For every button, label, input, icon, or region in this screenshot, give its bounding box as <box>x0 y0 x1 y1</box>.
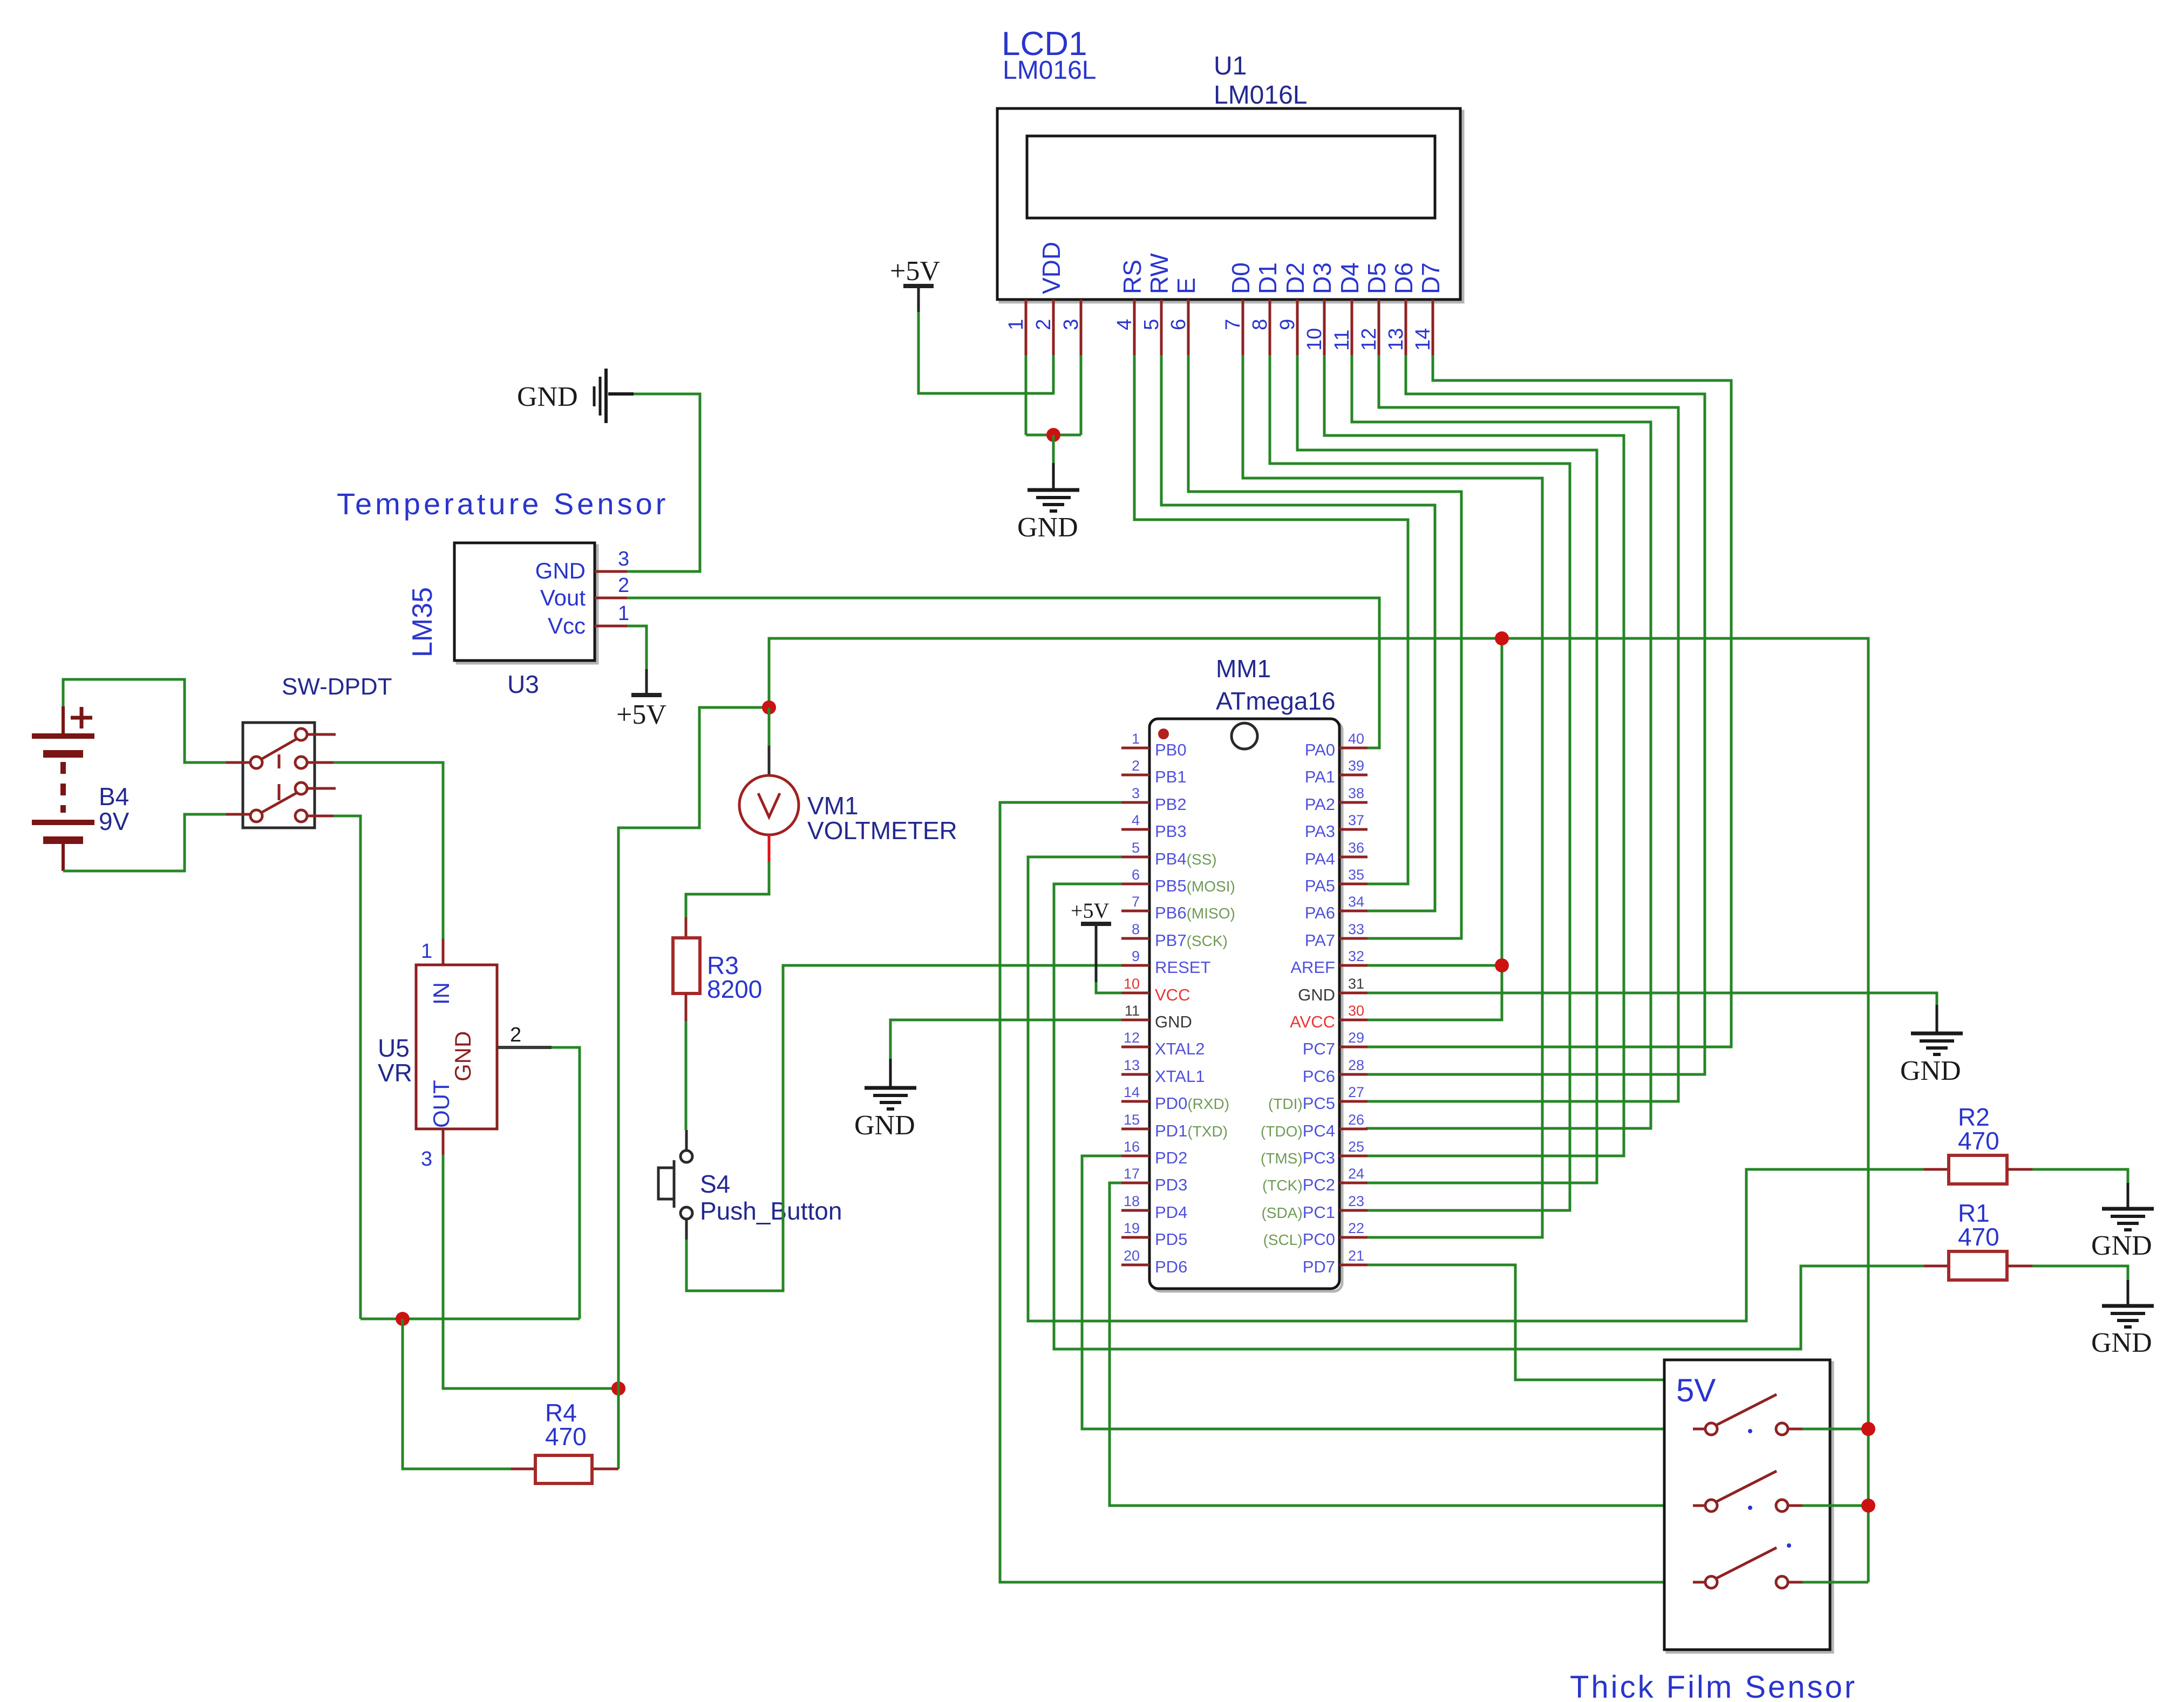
svg-text:5: 5 <box>1140 319 1163 330</box>
svg-text:12: 12 <box>1124 1030 1140 1046</box>
wire R2 to ground <box>2032 1169 2128 1183</box>
svg-text:(TDO)PC4: (TDO)PC4 <box>1261 1121 1335 1140</box>
ground symbol left of ATmega <box>865 1059 916 1109</box>
R3 bottom stub <box>685 993 688 1021</box>
ATmega pin 3 PB2 stub <box>1121 801 1149 804</box>
svg-text:5V: 5V <box>1676 1372 1716 1408</box>
svg-text:PB2: PB2 <box>1155 795 1187 814</box>
svg-text:24: 24 <box>1348 1166 1364 1182</box>
svg-text:PA5: PA5 <box>1305 876 1335 895</box>
ATmega pin 15 PD1 stub <box>1121 1128 1149 1131</box>
junction dot AREF tap <box>1495 958 1509 972</box>
ATmega pin 1 PB0 stub <box>1121 747 1149 750</box>
svg-text:PA6: PA6 <box>1305 903 1335 922</box>
svg-text:XTAL2: XTAL2 <box>1155 1039 1205 1058</box>
svg-text:10: 10 <box>1303 328 1326 351</box>
sensor switch 3 right stub <box>1788 1581 1802 1584</box>
+5V bar <box>903 284 934 288</box>
ATmega pin 28 PC6 stub <box>1339 1073 1367 1076</box>
svg-text:27: 27 <box>1348 1084 1364 1100</box>
wire LM35 GND to flag <box>605 394 700 571</box>
+5V VCC stem <box>1095 924 1098 982</box>
push button S4 top circle <box>681 1150 692 1162</box>
S4 top lead <box>685 1130 688 1150</box>
svg-text:7: 7 <box>1132 894 1140 910</box>
ATmega pin 5 PB4 stub <box>1121 856 1149 859</box>
ATmega pin 16 PD2 stub <box>1121 1155 1149 1158</box>
switch pole B circle <box>250 810 262 822</box>
svg-text:35: 35 <box>1348 867 1364 883</box>
R1 right stub <box>2007 1265 2032 1268</box>
svg-text:D2: D2 <box>1281 262 1309 294</box>
svg-text:PD7: PD7 <box>1303 1257 1335 1276</box>
svg-text:22: 22 <box>1348 1220 1364 1236</box>
wire pole B throw down <box>334 816 360 1319</box>
wire D1 pin8 to PC1 <box>1270 355 1570 1210</box>
svg-text:PB7(SCK): PB7(SCK) <box>1155 931 1228 950</box>
wire Vout to PA0 <box>627 598 1379 748</box>
svg-text:(TMS)PC3: (TMS)PC3 <box>1261 1148 1335 1167</box>
resistor R1 body <box>1949 1251 2007 1280</box>
svg-text:20: 20 <box>1124 1248 1140 1264</box>
svg-text:2: 2 <box>1132 758 1140 774</box>
wire AREF pin32 to +5V rail <box>1367 964 1502 967</box>
ATmega U MM1 body <box>1149 719 1339 1289</box>
junction dot switch2 <box>1861 1499 1875 1513</box>
ATmega pin 10 VCC stub <box>1121 992 1149 995</box>
wire S4 to RESET <box>686 965 1121 1291</box>
ATmega pin 24 PC2 stub <box>1339 1182 1367 1184</box>
wire junction down to R4 left <box>403 1319 511 1469</box>
LCD pin 1 stub <box>1025 299 1028 355</box>
wire PB4 pin5 to R2 <box>1028 857 1924 1321</box>
ATmega pin 22 PC0 stub <box>1339 1236 1367 1239</box>
wire battery- to switch pole B <box>63 814 226 871</box>
LM35 pin3 stub <box>595 570 627 573</box>
switch throw B2 circle <box>295 810 307 822</box>
svg-text:1: 1 <box>618 602 629 625</box>
svg-text:3: 3 <box>618 548 629 570</box>
wire junction to ground <box>1052 435 1055 463</box>
sensor switch 1 dot <box>1748 1429 1752 1433</box>
svg-text:3: 3 <box>1132 785 1140 801</box>
svg-text:U1: U1 <box>1214 52 1247 80</box>
svg-text:+5V: +5V <box>890 256 940 287</box>
VM1 bottom lead red <box>768 835 771 862</box>
svg-text:LM016L: LM016L <box>1214 81 1307 110</box>
svg-text:6: 6 <box>1132 867 1140 883</box>
wire pin1-pin3 join <box>1026 434 1081 437</box>
U5 pin1 stub top <box>442 939 445 965</box>
svg-text:(SCL)PC0: (SCL)PC0 <box>1263 1230 1335 1249</box>
svg-text:14: 14 <box>1124 1084 1140 1100</box>
ATmega pin 11 GND stub <box>1121 1019 1149 1022</box>
+5V stem <box>917 286 920 312</box>
voltmeter VM1 circle <box>739 775 799 835</box>
ground symbol right of ATmega <box>1911 1005 1963 1054</box>
svg-text:15: 15 <box>1124 1112 1140 1128</box>
wire RW pin5 to PA6 <box>1161 355 1435 911</box>
svg-text:37: 37 <box>1348 812 1364 828</box>
wire VM1 to R3 <box>686 862 769 938</box>
ATmega pin 29 PC7 stub <box>1339 1046 1367 1049</box>
LCD1 body <box>997 108 1460 299</box>
svg-text:PD5: PD5 <box>1155 1230 1187 1249</box>
svg-text:36: 36 <box>1348 840 1364 856</box>
LCD1 screen window <box>1027 136 1435 218</box>
svg-text:9: 9 <box>1132 948 1140 964</box>
Thick Film Sensor body shadow <box>1667 1363 1833 1652</box>
svg-text:PA1: PA1 <box>1305 767 1335 786</box>
LCD pin 13 stub <box>1405 299 1407 355</box>
wire PD2 pin16 to sensor row1 <box>1082 1156 1693 1429</box>
switch pole A stub <box>226 761 250 764</box>
svg-text:GND: GND <box>1900 1056 1961 1086</box>
svg-text:470: 470 <box>1958 1223 1999 1251</box>
switch throw B1 circle <box>295 782 307 794</box>
sensor switch 1 left stub <box>1693 1428 1705 1431</box>
LCD pin 7 stub <box>1242 299 1244 355</box>
wire D3 pin10 to PC3 <box>1324 355 1624 1156</box>
LM35 pin2 stub <box>595 597 627 600</box>
svg-text:19: 19 <box>1124 1220 1140 1236</box>
ATmega pin 39 PA1 stub <box>1339 774 1367 777</box>
svg-text:29: 29 <box>1348 1030 1364 1046</box>
svg-text:(TCK)PC2: (TCK)PC2 <box>1262 1175 1335 1194</box>
svg-text:Temperature Sensor: Temperature Sensor <box>337 487 669 521</box>
ATmega pin 7 PB6 stub <box>1121 910 1149 913</box>
R3 top stub <box>685 917 688 938</box>
svg-text:23: 23 <box>1348 1193 1364 1209</box>
U5 pin2 lead <box>497 1046 552 1049</box>
svg-text:4: 4 <box>1132 812 1140 828</box>
svg-text:39: 39 <box>1348 758 1364 774</box>
sensor switch 2 dot <box>1748 1506 1752 1510</box>
battery plate short top <box>43 750 83 758</box>
svg-text:PB6(MISO): PB6(MISO) <box>1155 903 1235 922</box>
battery plate long top <box>32 733 94 739</box>
svg-text:VR: VR <box>378 1059 412 1087</box>
resistor R4 body <box>535 1455 592 1483</box>
wire PD7 pin21 to sensor 5V <box>1367 1265 1664 1380</box>
svg-text:U5: U5 <box>378 1034 410 1062</box>
svg-text:OUT: OUT <box>428 1080 454 1128</box>
GND flag near LM35 <box>594 369 634 423</box>
wire U5 GND down <box>552 1047 580 1319</box>
battery plate short bottom <box>43 836 83 844</box>
svg-text:GND: GND <box>1298 985 1335 1004</box>
battery plus sign <box>71 707 92 729</box>
battery dashed link <box>60 762 66 813</box>
svg-text:13: 13 <box>1385 328 1407 351</box>
R4 left stub <box>511 1468 535 1470</box>
wire switch1 to rail <box>1802 1428 1868 1431</box>
ATmega pin 40 PA0 stub <box>1339 747 1367 750</box>
sensor switch 2 right circle <box>1776 1500 1788 1512</box>
switch link dashes <box>278 754 281 800</box>
R2 right stub <box>2007 1168 2032 1171</box>
svg-text:PB4(SS): PB4(SS) <box>1155 849 1217 868</box>
ATmega pin 38 PA2 stub <box>1339 801 1367 804</box>
LCD pin 4 stub <box>1133 299 1136 355</box>
svg-text:B4: B4 <box>99 782 129 811</box>
LCD pin 12 stub <box>1378 299 1380 355</box>
switch arm B <box>261 792 298 813</box>
svg-text:+5V: +5V <box>616 699 666 730</box>
svg-text:7: 7 <box>1222 319 1244 330</box>
svg-text:Push_Button: Push_Button <box>700 1197 842 1225</box>
wire U5 OUT down to node <box>443 1155 618 1388</box>
switch arm A <box>261 738 298 759</box>
sensor switch 1 arm <box>1716 1394 1777 1425</box>
switch throw A2 stub <box>307 761 334 764</box>
ATmega pin 32 AREF stub <box>1339 964 1367 967</box>
svg-text:GND: GND <box>517 382 578 412</box>
wire pole A throw to U5 IN <box>334 763 443 939</box>
svg-text:25: 25 <box>1348 1139 1364 1155</box>
wire GND to pin11 <box>890 1020 1121 1059</box>
svg-text:GND: GND <box>2091 1327 2152 1358</box>
U5 pin3 stub bottom <box>442 1129 445 1155</box>
svg-text:4: 4 <box>1113 319 1136 330</box>
svg-text:30: 30 <box>1348 1003 1364 1019</box>
ATmega pin 4 PB3 stub <box>1121 828 1149 831</box>
ATmega pin 14 PD0 stub <box>1121 1100 1149 1103</box>
ATmega pin 36 PA4 stub <box>1339 856 1367 859</box>
S4 actuator bracket <box>658 1160 674 1208</box>
ATmega pin 23 PC1 stub <box>1339 1209 1367 1212</box>
+5V symbol under LM35 bar <box>631 693 662 697</box>
svg-text:S4: S4 <box>700 1170 730 1198</box>
svg-text:AREF: AREF <box>1290 958 1335 977</box>
svg-text:PD2: PD2 <box>1155 1148 1187 1167</box>
svg-text:GND: GND <box>450 1031 475 1081</box>
svg-text:470: 470 <box>1958 1127 1999 1155</box>
svg-text:8200: 8200 <box>707 975 762 1003</box>
junction dot switch1 <box>1861 1422 1875 1436</box>
svg-text:40: 40 <box>1348 731 1364 747</box>
svg-text:PA3: PA3 <box>1305 822 1335 841</box>
svg-text:3: 3 <box>1060 319 1083 330</box>
svg-text:GND: GND <box>1155 1012 1192 1031</box>
wire PB5 pin6 to R1 <box>1054 884 1924 1349</box>
svg-text:1: 1 <box>1005 319 1028 330</box>
battery B4 bottom lead <box>62 840 65 871</box>
ATmega pin 12 XTAL2 stub <box>1121 1046 1149 1049</box>
LCD body shadow <box>1000 111 1463 302</box>
ATmega pin 31 GND stub <box>1339 992 1367 995</box>
svg-text:AVCC: AVCC <box>1290 1012 1335 1031</box>
sensor switch 3 arm <box>1716 1548 1777 1578</box>
wire switch2 to rail <box>1802 1504 1868 1507</box>
svg-text:U3: U3 <box>507 670 539 698</box>
svg-text:PB1: PB1 <box>1155 767 1187 786</box>
wire PD3 pin17 to sensor row2 <box>1110 1183 1693 1506</box>
svg-text:33: 33 <box>1348 921 1364 937</box>
wire +5V to VDD <box>918 312 1054 393</box>
ATmega pin 27 PC5 stub <box>1339 1100 1367 1103</box>
ATmega pin 13 XTAL1 stub <box>1121 1073 1149 1076</box>
svg-text:3: 3 <box>421 1148 432 1170</box>
sensor switch 3 dot <box>1787 1543 1791 1548</box>
junction dot +5V node right <box>611 1381 625 1395</box>
svg-text:IN: IN <box>428 982 454 1005</box>
svg-text:PC6: PC6 <box>1303 1067 1335 1086</box>
ATmega pin 37 PA3 stub <box>1339 828 1367 831</box>
svg-text:PB3: PB3 <box>1155 822 1187 841</box>
ATmega pin 25 PC3 stub <box>1339 1155 1367 1158</box>
wire VM1 top lead green <box>768 707 771 746</box>
junction dot VM1 node <box>762 700 776 714</box>
sensor switch 3 left circle <box>1705 1576 1717 1588</box>
LM35 body U3 <box>454 543 595 661</box>
svg-text:2: 2 <box>1032 319 1055 330</box>
svg-text:VM1: VM1 <box>807 792 859 820</box>
svg-text:LM35: LM35 <box>407 587 438 657</box>
ATmega pin1 marker dot <box>1158 729 1169 739</box>
svg-text:D5: D5 <box>1363 262 1391 294</box>
svg-text:(SDA)PC1: (SDA)PC1 <box>1261 1203 1335 1222</box>
svg-text:D7: D7 <box>1417 262 1445 294</box>
LCD pin 9 stub <box>1296 299 1299 355</box>
switch pole B stub <box>226 813 250 816</box>
switch throw B2 stub <box>307 815 334 818</box>
svg-text:PD4: PD4 <box>1155 1203 1187 1222</box>
battery B4 top lead <box>62 706 65 736</box>
LCD pin 6 stub <box>1187 299 1190 355</box>
svg-text:D4: D4 <box>1336 262 1364 294</box>
switch throw A1 stub unconnected <box>307 733 336 736</box>
wire ground bus R4 left <box>360 1318 580 1320</box>
svg-text:8: 8 <box>1132 921 1140 937</box>
wire +5V to VCC pin10 <box>1096 982 1121 993</box>
svg-text:VOLTMETER: VOLTMETER <box>807 816 957 845</box>
sensor switch 1 right circle <box>1776 1423 1788 1435</box>
R4 right stub <box>592 1468 618 1470</box>
wire D5 pin12 to PC5 <box>1366 355 1678 1101</box>
battery plate long bottom <box>32 820 94 825</box>
ground under LCD <box>1028 463 1079 511</box>
svg-text:16: 16 <box>1124 1139 1140 1155</box>
svg-text:14: 14 <box>1412 328 1434 351</box>
ATmega pin 30 AVCC stub <box>1339 1019 1367 1022</box>
svg-text:5: 5 <box>1132 840 1140 856</box>
VM1 top lead black <box>768 746 771 777</box>
svg-text:470: 470 <box>545 1422 587 1451</box>
svg-text:RW: RW <box>1145 253 1173 294</box>
svg-text:10: 10 <box>1124 976 1140 992</box>
svg-text:11: 11 <box>1331 330 1353 351</box>
ATmega pin 33 PA7 stub <box>1339 937 1367 940</box>
LCD pin 5 stub <box>1160 299 1163 355</box>
svg-text:D0: D0 <box>1227 262 1255 294</box>
svg-text:RS: RS <box>1118 260 1146 294</box>
LM35 body shadow <box>457 546 597 663</box>
R2 left stub <box>1924 1168 1949 1171</box>
junction dot ground bus <box>396 1312 410 1326</box>
svg-text:PA0: PA0 <box>1305 740 1335 759</box>
svg-text:Thick Film Sensor: Thick Film Sensor <box>1570 1670 1857 1702</box>
sensor switch 2 arm <box>1716 1471 1777 1502</box>
svg-text:9V: 9V <box>99 807 130 835</box>
wire AVCC pin30 to +5V rail <box>1367 638 1502 1020</box>
ATmega pin 19 PD5 stub <box>1121 1236 1149 1239</box>
LM35 pin1 stub <box>595 625 627 628</box>
ATmega body shadow <box>1152 721 1342 1291</box>
sensor switch 2 left circle <box>1705 1500 1717 1512</box>
svg-text:PC7: PC7 <box>1303 1039 1335 1058</box>
svg-text:VDD: VDD <box>1037 242 1065 294</box>
wire GND pin31 right <box>1367 993 1937 1005</box>
wire D6 pin13 to PC6 <box>1366 355 1705 1074</box>
svg-text:GND: GND <box>2091 1230 2152 1261</box>
ATmega pin 18 PD4 stub <box>1121 1209 1149 1212</box>
svg-text:21: 21 <box>1348 1248 1364 1264</box>
svg-text:GND: GND <box>1017 512 1078 543</box>
wire VDD pin2 down <box>1052 355 1055 393</box>
sensor switch 2 right stub <box>1788 1504 1802 1507</box>
svg-text:(TDI)PC5: (TDI)PC5 <box>1268 1094 1335 1113</box>
LCD pin 14 stub <box>1432 299 1434 355</box>
wire R3 to S4 <box>685 1021 688 1130</box>
svg-text:Vout: Vout <box>540 585 586 610</box>
wire E pin6 to PA7 <box>1188 355 1461 938</box>
wire node down to R4 right <box>617 1388 620 1469</box>
resistor R3 body <box>673 938 700 993</box>
svg-text:6: 6 <box>1167 319 1190 330</box>
wire +5V net rail up and right <box>769 638 1868 1582</box>
ATmega pin 26 PC4 stub <box>1339 1128 1367 1131</box>
push button S4 bottom circle <box>681 1207 692 1219</box>
ATmega pin 8 PB7 stub <box>1121 937 1149 940</box>
wire PB2 pin3 to sensor row3 <box>1000 802 1693 1582</box>
wire D0 pin7 to PC0 <box>1243 355 1542 1237</box>
wire +5V net VM1 to regulator node <box>618 707 769 1388</box>
switch pole A circle <box>250 757 262 768</box>
wire battery+ to switch pole A <box>63 679 226 763</box>
S4 bottom lead <box>685 1219 688 1240</box>
svg-text:8: 8 <box>1249 319 1271 330</box>
svg-text:E: E <box>1172 277 1200 294</box>
svg-text:11: 11 <box>1125 1003 1140 1019</box>
ATmega pin 6 PB5 stub <box>1121 883 1149 886</box>
svg-text:1: 1 <box>1132 731 1140 747</box>
svg-text:31: 31 <box>1348 976 1364 992</box>
sensor switch 3 left stub <box>1693 1581 1705 1584</box>
svg-text:PA7: PA7 <box>1305 931 1335 950</box>
svg-text:2: 2 <box>510 1024 521 1046</box>
ATmega pin 20 PD6 stub <box>1121 1264 1149 1267</box>
svg-text:LM016L: LM016L <box>1003 56 1096 85</box>
svg-text:PD6: PD6 <box>1155 1257 1187 1276</box>
svg-text:PD0(RXD): PD0(RXD) <box>1155 1094 1229 1113</box>
ATmega notch circle <box>1232 723 1257 749</box>
LCD pin 2 stub <box>1052 299 1055 355</box>
ATmega pin 9 RESET stub <box>1121 964 1149 967</box>
svg-text:32: 32 <box>1348 948 1364 964</box>
svg-text:PB5(MOSI): PB5(MOSI) <box>1155 876 1235 895</box>
VM1 V mark <box>758 793 780 817</box>
svg-text:38: 38 <box>1348 785 1364 801</box>
svg-text:18: 18 <box>1124 1193 1140 1209</box>
svg-text:26: 26 <box>1348 1112 1364 1128</box>
svg-text:12: 12 <box>1358 328 1380 351</box>
sensor switch 1 left circle <box>1705 1423 1717 1435</box>
svg-text:Vcc: Vcc <box>548 613 586 638</box>
wire D2 pin9 to PC2 <box>1297 355 1597 1183</box>
wire R1 to ground <box>2032 1266 2128 1280</box>
svg-text:PD1(TXD): PD1(TXD) <box>1155 1121 1228 1140</box>
